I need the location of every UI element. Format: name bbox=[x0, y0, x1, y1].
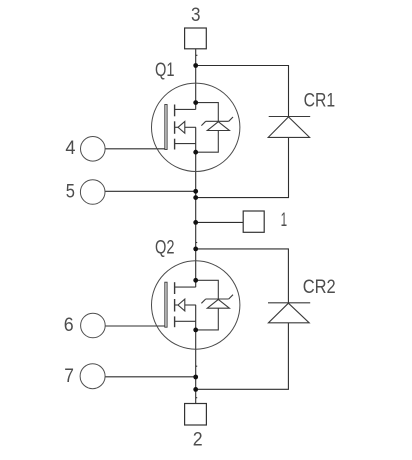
svg-text:7: 7 bbox=[64, 366, 74, 387]
svg-text:5: 5 bbox=[66, 182, 75, 203]
svg-text:6: 6 bbox=[64, 315, 74, 336]
svg-text:2: 2 bbox=[193, 429, 203, 450]
svg-text:4: 4 bbox=[65, 138, 76, 159]
svg-text:3: 3 bbox=[191, 5, 201, 26]
svg-text:Q2: Q2 bbox=[155, 238, 175, 259]
svg-text:Q1: Q1 bbox=[155, 60, 175, 81]
svg-text:CR2: CR2 bbox=[303, 277, 336, 298]
svg-text:CR1: CR1 bbox=[304, 90, 336, 111]
svg-text:1: 1 bbox=[281, 210, 288, 231]
